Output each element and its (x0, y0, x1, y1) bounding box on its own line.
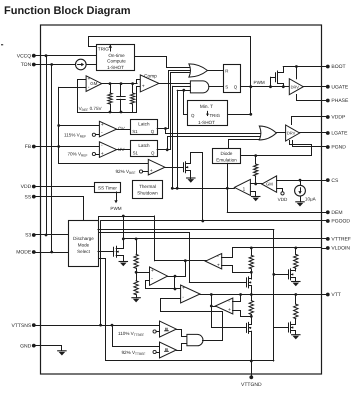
svg-text:R: R (225, 69, 228, 74)
wire min-tpw AND input (173, 86, 191, 88)
wire 1-shot Q to AND (184, 91, 188, 115)
current source 10uA (300, 180, 302, 185)
ground 10uA (296, 201, 304, 203)
wire PGOOD FET drain (189, 153, 203, 221)
wire discharge FET drain (119, 248, 124, 250)
wire long vertical to zc line (177, 90, 179, 188)
wire vertical from upper (154, 216, 156, 261)
wire S3 (36, 234, 69, 236)
wire PWM trigger rail (89, 37, 251, 86)
pin VTT (322, 294, 327, 296)
svg-text:Function Block Diagram: Function Block Diagram (4, 5, 131, 17)
svg-text:-: - (101, 130, 103, 136)
svg-text:Emulation: Emulation (216, 157, 237, 162)
svg-text:-: - (101, 143, 103, 149)
wire buffer1 in-top from VLDOIN (222, 248, 233, 258)
svg-text:-: - (182, 295, 184, 301)
resistor vtt out (295, 295, 297, 305)
svg-text:+: + (142, 84, 145, 90)
wire latch2 to PWM OR (171, 73, 193, 150)
transistor VTTREF discharge (113, 247, 115, 256)
wire discharge FET source (119, 256, 124, 262)
op-amp half-vddq (150, 267, 168, 285)
svg-text:VLDOIN: VLDOIN (331, 246, 350, 252)
svg-text:PWM: PWM (110, 206, 121, 211)
wire 92% comp to AND (177, 344, 187, 351)
comparator zero-cross (234, 179, 250, 195)
svg-text:+: + (101, 122, 104, 128)
block latch2 (131, 141, 158, 157)
transistor PGOOD pull-down (183, 163, 185, 172)
wire zc output line (172, 188, 234, 190)
resistor vtt sink R (251, 295, 253, 301)
pin PHASE (322, 100, 327, 102)
wire VLDOIN rail (233, 247, 322, 249)
block RS flip-flop (224, 65, 241, 93)
wire VTTSNS to 92% comp (113, 326, 160, 347)
wire buffer1 in-bot to node (222, 266, 252, 273)
block diode emulation (213, 149, 241, 164)
svg-text:Latch: Latch (138, 121, 150, 126)
wire buffer2 in-top (233, 295, 241, 302)
wire buffer1 apex line (155, 260, 206, 262)
wire OV to latch1 (117, 129, 131, 131)
wire VTTGND rail (106, 360, 274, 362)
svg-text:Shutdown: Shutdown (137, 191, 158, 196)
wire diode emulation to DEM pin (227, 163, 229, 212)
svg-text:GM: GM (90, 81, 97, 86)
stray mark (1, 44, 3, 45)
svg-text:GND: GND (20, 343, 32, 349)
wire FET2 source to VTTGND (251, 331, 253, 361)
svg-text:VTTSNS: VTTSNS (11, 323, 31, 329)
svg-text:TRIG: TRIG (210, 113, 221, 118)
wire VTT rail (200, 294, 322, 296)
wire GM2 VDD input (277, 189, 283, 192)
current source on-time (76, 59, 87, 70)
resistor vttref out (295, 248, 297, 255)
pin LGATE (322, 132, 327, 134)
wire FET1 source to VTT (251, 286, 253, 295)
wire buffer2 apex to VTT (212, 295, 216, 307)
IC boundary (41, 25, 322, 374)
ground vttref fet (292, 281, 300, 283)
wire BOOT rail (283, 66, 321, 68)
svg-text:PGND: PGND (331, 145, 346, 151)
buffer vtt source (205, 254, 221, 269)
svg-text:MODE: MODE (16, 250, 32, 256)
svg-text:PGOOD: PGOOD (331, 219, 350, 225)
svg-text:CS: CS (331, 178, 339, 184)
wire latch1 Q out (157, 128, 168, 130)
wire op-amp2 in-bot (161, 299, 196, 312)
wire and-b out routing (196, 312, 223, 341)
svg-text:+: + (182, 285, 185, 291)
block thermal shutdown (133, 181, 163, 199)
svg-text:LGATE: LGATE (331, 131, 348, 137)
wire VTTREF rail (123, 238, 321, 240)
ground zc (252, 196, 260, 198)
op-amp GM (86, 76, 102, 92)
wire comp plus from VREF rail (137, 87, 141, 113)
block min tpw one-shot (188, 101, 228, 126)
svg-text:VCCQ: VCCQ (17, 53, 32, 59)
wire BOOT to DRV1 (296, 67, 298, 79)
wire GM out up to Comp minus (137, 80, 141, 84)
wire VREF rail (78, 80, 137, 113)
svg-text:-: - (217, 254, 219, 260)
wire buffer2 in-bot (233, 311, 252, 317)
pin VDDP (322, 116, 327, 118)
wire buffer1 apex link (185, 261, 187, 276)
wire discharge select to VTTGND rail (99, 259, 106, 361)
wire op-amp1 feedback (168, 276, 175, 278)
svg-text:SS Timer: SS Timer (98, 185, 117, 190)
svg-text:S3: S3 (25, 233, 31, 239)
wire latch1 to PWM OR (169, 71, 193, 129)
gate OR pwm-off (189, 64, 208, 77)
svg-text:10μA: 10μA (305, 196, 317, 201)
wire zc input from sense node (250, 183, 261, 185)
svg-text:PHASE: PHASE (331, 98, 349, 104)
svg-text:VDD: VDD (21, 184, 32, 190)
svg-text:+: + (228, 307, 231, 313)
svg-text:PWM: PWM (254, 80, 265, 85)
svg-text:OV: OV (118, 126, 126, 131)
wire discharge select out lower (99, 233, 190, 283)
wire CS line (277, 180, 322, 182)
resistor divider R5 (136, 239, 138, 255)
svg-text:+: + (150, 168, 153, 174)
svg-text:1-SHOT: 1-SHOT (107, 65, 124, 70)
wire zc input2 to ground (251, 192, 256, 197)
block on-time compute 1-shot (97, 45, 135, 71)
comparator PGOOD 92% (148, 159, 165, 175)
svg-text:TRIG: TRIG (98, 47, 109, 52)
wire OR-L out to DRV2 (276, 132, 285, 134)
wire UV to latch2 (117, 149, 131, 151)
svg-text:DEM: DEM (331, 210, 342, 216)
wire UGATE out (303, 86, 321, 88)
wire GM output (102, 83, 137, 85)
wire op-amp1 out to buffer1 (175, 276, 186, 278)
wire discharge select out upper (98, 229, 274, 231)
wire FB to GM minus (59, 87, 86, 89)
svg-text:VDDP: VDDP (331, 115, 346, 121)
wire AND-B out (203, 340, 223, 342)
wire FB to OV plus (59, 125, 100, 127)
wire DRV2 to PGND (293, 141, 322, 147)
svg-text:Q: Q (151, 151, 155, 156)
svg-text:FB: FB (25, 144, 32, 150)
wire long vertical zc to AND (172, 86, 174, 188)
wire VCCQ branch down to S3 (46, 56, 48, 235)
wire PWM vertical lower (250, 87, 252, 115)
gate AND vtt ok (187, 334, 203, 345)
transistor VTT sourcing FET (246, 278, 248, 287)
svg-text:Q: Q (191, 113, 195, 118)
svg-text:-: - (228, 299, 230, 305)
transistor bootstrap (270, 77, 272, 86)
wire op-amp2 in-top (175, 288, 181, 290)
wire FB to 92% comparator (59, 163, 149, 165)
transistor vtt pull-down (274, 327, 289, 329)
wire FET1 drain (251, 272, 253, 279)
svg-text:UGATE: UGATE (331, 84, 349, 90)
svg-text:1: 1 (243, 186, 246, 191)
wire AND third input (177, 90, 190, 92)
svg-text:+: + (101, 151, 104, 157)
block discharge mode select (69, 221, 99, 267)
wire PGOOD FET source to ground (189, 171, 191, 179)
wire SS to discharge select (36, 197, 84, 223)
comparator UV (99, 142, 116, 158)
comparator 110% vtt (160, 321, 177, 337)
pin UGATE (322, 86, 327, 88)
wire TON branch down to MODE (51, 65, 53, 253)
ground discharge FET (119, 261, 127, 263)
svg-text:VDD: VDD (278, 197, 288, 202)
svg-text:Compute: Compute (107, 58, 126, 63)
svg-text:Q: Q (151, 129, 155, 134)
svg-text:+: + (217, 262, 220, 268)
capacitor comp C1 (120, 84, 122, 97)
wire DRV1 to PHASE (297, 95, 322, 101)
svg-text:Comp: Comp (144, 74, 157, 80)
wire Comp out to AND gate (159, 83, 191, 85)
pin CS (322, 180, 327, 182)
comparator Comp (140, 75, 159, 92)
driver DRV2 (286, 125, 300, 141)
wire PGOOD line (101, 220, 322, 222)
wire latch2 to LGATE OR (168, 137, 264, 150)
wire VDD to SS timer (36, 186, 95, 188)
svg-text:DRV: DRV (291, 84, 300, 89)
svg-text:Select: Select (77, 249, 90, 254)
wire 92% comp out to FET (165, 167, 183, 169)
svg-text:GM: GM (266, 182, 273, 187)
svg-text:VTTGND: VTTGND (241, 382, 262, 388)
wire FET2 drain (251, 316, 253, 324)
svg-text:On-time: On-time (108, 53, 125, 58)
resistor vtt source R (251, 248, 253, 255)
wire MODE (36, 252, 69, 254)
driver DRV1 (289, 79, 303, 95)
ground divider (132, 297, 140, 299)
wire to FET1 gate (189, 282, 246, 284)
wire FB vertical (58, 87, 60, 163)
wire PGOOD left vertical (100, 221, 102, 325)
svg-text:DRV: DRV (287, 131, 296, 136)
svg-text:Q: Q (234, 85, 238, 90)
wire latch1 to LGATE OR (166, 129, 264, 134)
wire latch2 Q out (157, 149, 170, 151)
wire VDDP to DRV2 (292, 117, 322, 125)
comparator OV (99, 121, 116, 137)
svg-text:S1: S1 (133, 151, 139, 156)
pin VTTREF (322, 238, 327, 240)
wire gate feed vertical right (273, 230, 275, 362)
svg-text:S: S (225, 85, 228, 90)
transistor vttref pull-down (274, 274, 289, 276)
wire min-tpw trig from PWM (228, 114, 251, 116)
wire divider tap to op-amp1 (136, 272, 149, 274)
wire AND out to S (209, 86, 224, 88)
wire PWM (241, 86, 290, 88)
svg-text:Mode: Mode (78, 242, 90, 247)
buffer vtt sink (215, 298, 233, 314)
pin VLDOIN (322, 248, 327, 250)
ground GND pin (36, 346, 62, 351)
wire OR out to R (208, 70, 224, 72)
svg-text:S1: S1 (132, 129, 138, 134)
pin BOOT (322, 66, 327, 68)
svg-text:+: + (151, 268, 154, 274)
block latch1 (131, 120, 158, 135)
resistor cs sense (255, 156, 257, 164)
pin PGND (322, 146, 327, 148)
svg-text:0.75V: 0.75V (90, 106, 103, 111)
svg-text:Diode: Diode (220, 151, 232, 156)
wire diode emulation to OR-L (229, 140, 263, 149)
block SS timer (95, 183, 121, 193)
svg-text:SS: SS (25, 194, 32, 200)
resistor comp R1 (110, 84, 112, 93)
wire SS timer PWM out (116, 192, 118, 201)
pin PGOOD (322, 220, 327, 222)
svg-text:VTTREF: VTTREF (331, 237, 350, 243)
svg-text:-: - (151, 276, 153, 282)
svg-text:Discharge: Discharge (73, 236, 94, 241)
wire 110% comp to AND (177, 330, 187, 337)
pin DEM (322, 212, 327, 214)
wire TON to one-shot (86, 64, 96, 66)
svg-text:TON: TON (21, 62, 32, 68)
gate AND pwm-on (190, 81, 208, 93)
resistor divider R6 (134, 281, 138, 295)
wire VCCQ (36, 55, 96, 57)
wire one-shot output to OR gate (135, 57, 193, 68)
svg-text:Thermal: Thermal (139, 184, 156, 189)
svg-text:Min. T: Min. T (200, 104, 213, 110)
ground PGOOD FET (187, 177, 195, 179)
ground vtt fet (292, 334, 300, 336)
wire discharge path upper (99, 217, 155, 221)
comparator 92% vtt (160, 342, 177, 358)
pin VTTGND (251, 361, 253, 376)
op-amp vtt (181, 285, 200, 303)
resistor comp R2 (132, 84, 134, 93)
wire TON (36, 64, 76, 66)
transistor VTT sinking FET (246, 323, 248, 332)
wire discharge FET gate (98, 251, 114, 253)
wire FB (36, 146, 100, 148)
wire LGATE out (300, 132, 322, 134)
wire diode emulation right loop (241, 155, 312, 157)
wire FET2 gate from buffer2 (212, 307, 247, 328)
svg-text:1-SHOT: 1-SHOT (198, 120, 215, 125)
op-amp GM current sense (262, 176, 277, 192)
gate OR lgate (259, 126, 276, 140)
wire VTTSNS (36, 325, 160, 327)
svg-text:BOOT: BOOT (331, 64, 345, 70)
svg-text:VTT: VTT (331, 292, 340, 298)
svg-text:Latch: Latch (138, 143, 150, 148)
